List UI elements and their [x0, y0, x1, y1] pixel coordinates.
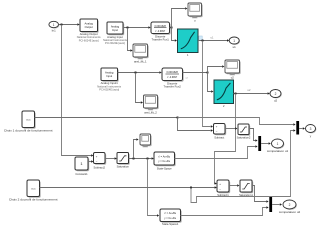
wire State-Space to Mux1 input 2 [175, 145, 258, 158]
block Saturation [117, 153, 130, 169]
wire Analog Input to Discrete Transfer Fcn1 [123, 26, 151, 28]
wire Subtract to Saturation2 [225, 127, 237, 129]
svg-text:−: − [216, 129, 218, 133]
junction on Analog Input1 wire [135, 72, 137, 74]
svg-text:y = Cx+Du: y = Cx+Du [158, 160, 170, 163]
wire Saturation to State-Space [129, 157, 154, 159]
saturation dynamic block 1 (teal) [178, 29, 199, 57]
mux Mux3 [296, 121, 299, 135]
wire Mux1 to outport comparaison u1 [261, 142, 271, 144]
svg-text:1: 1 [277, 142, 279, 146]
svg-text:Choix 1 du profil de fonctionn: Choix 1 du profil de fonctionnement [4, 128, 53, 132]
svg-text:2: 2 [275, 92, 277, 96]
wire Saturation1 to Mux2 input 1 [252, 186, 269, 203]
svg-text:Choix 2 du profil de fonctionn: Choix 2 du profil de fonctionnement [9, 197, 58, 201]
junction Transfer Fcn1 output [170, 27, 173, 29]
svg-text:z -0.9997: z -0.9997 [155, 30, 166, 33]
wire Saturation2 to Mux1 input 1 [249, 129, 258, 142]
junction on Choix1 wire [177, 117, 179, 119]
wire teal 2 to outport u2 [234, 88, 270, 95]
svg-text:Output: Output [85, 25, 93, 29]
wire Choix1 output [35, 117, 178, 119]
svg-text:x' = Ax+Bu: x' = Ax+Bu [164, 212, 176, 215]
wire In1 to Analog Output [59, 23, 80, 25]
wire down to saturation dynamic 2 [208, 73, 214, 93]
block Subtract1 [217, 180, 230, 197]
scope u [188, 3, 203, 22]
wire Transfer Fcn1 up to scope u [172, 7, 188, 27]
block State-Space [154, 152, 176, 171]
svg-text:z -0.9997: z -0.9997 [167, 76, 178, 79]
svg-text:Transfer Fcn1: Transfer Fcn1 [152, 38, 170, 42]
svg-text:u2: u2 [231, 75, 235, 79]
outport u2 [270, 90, 282, 103]
wire Transfer Fcn1 down to saturation dynamic 1 [172, 28, 178, 42]
svg-text:Subtract2: Subtract2 [93, 165, 105, 169]
svg-text:1: 1 [53, 23, 55, 27]
junction on Choix2 wire [190, 187, 192, 189]
wire Transfer Fcn2 output [183, 72, 208, 74]
svg-text:ansl_filt_2: ansl_filt_2 [144, 110, 157, 114]
svg-text:State-Space1: State-Space1 [162, 222, 179, 226]
block Analog Input1 [97, 68, 121, 92]
svg-text:Analog: Analog [105, 71, 114, 75]
wire Subtract1 to Saturation1 [229, 184, 239, 186]
svg-text:Out1: Out1 [31, 188, 37, 191]
wire Choix1 to Mux y input 1 [178, 118, 296, 126]
outport comparaison u2 [279, 200, 301, 214]
outport comparaison u1 [267, 139, 289, 153]
block State-Space1 [160, 209, 182, 226]
svg-text:Analog: Analog [85, 22, 94, 26]
junction to scope4 [133, 158, 135, 160]
svg-text:Transfer Fcn2: Transfer Fcn2 [164, 85, 182, 89]
outport y [306, 125, 317, 138]
block Analog Input [103, 22, 127, 45]
wire u2 feedback down to Subtract1 input 1 [215, 94, 236, 185]
junction on u1 wire [202, 40, 204, 42]
svg-text:comparaison u1: comparaison u1 [267, 149, 289, 153]
source Choix 1 du profil de fonctionnement [4, 111, 53, 132]
svg-text:ansl_filt_1: ansl_filt_1 [134, 59, 147, 63]
wire Mux3 to outport y [299, 127, 305, 129]
wire Constant1 to Subtract2 input 2 [88, 160, 93, 162]
svg-text:1: 1 [233, 39, 235, 43]
outport u1 [229, 37, 240, 49]
junction on Analog Input wire [127, 27, 129, 29]
svg-text:Input: Input [106, 74, 112, 78]
junction on u2 wire [235, 93, 237, 95]
wire Mux2 to outport comparaison u2 [272, 203, 282, 205]
svg-text:Saturation: Saturation [117, 164, 130, 168]
wire branch down to scope ansl_filt_2 [136, 73, 144, 104]
wire Choix2 loop to Mux3 input 2 [191, 129, 296, 202]
block Saturation1 [239, 180, 253, 197]
mux Mux1 [258, 136, 261, 151]
svg-text:Subtract: Subtract [214, 136, 224, 140]
block Analog Output [77, 19, 101, 42]
svg-text:0.0001628: 0.0001628 [155, 25, 167, 28]
svg-text:u1: u1 [233, 45, 237, 49]
svg-text:−: − [219, 188, 221, 192]
saturation dynamic block 2 (teal) [214, 80, 234, 108]
svg-text:PCI-6024E [auto]: PCI-6024E [auto] [79, 38, 99, 42]
block Subtract [214, 124, 227, 140]
svg-text:PCI-6024E [auto]: PCI-6024E [auto] [105, 41, 125, 45]
sample time tag on teal block 1 [199, 36, 202, 40]
scope4 [140, 134, 152, 147]
svg-text:Input: Input [112, 28, 118, 32]
junction to State-Space1 [147, 158, 149, 160]
wire Choix2 to Subtract1 input 2 [40, 186, 217, 188]
block Subtract2 [93, 153, 106, 170]
svg-text:2: 2 [289, 203, 291, 207]
svg-text:0.0001628: 0.0001628 [167, 71, 179, 74]
wire up to scope4 [134, 138, 139, 158]
scope ansl_filt_1 [133, 44, 149, 63]
junction Transfer Fcn2 output [207, 72, 209, 74]
svg-text:−: − [96, 160, 98, 164]
inport In1 [49, 21, 60, 32]
wire branch down to scope ansl_filt_1 [128, 28, 133, 52]
wire Choix1 branch to Subtract input 2 [178, 118, 214, 132]
scope u2 [225, 60, 241, 79]
wire In1 down to Subtract2 input 1 [62, 25, 94, 157]
source Choix 2 du profil de fonctionnement [9, 180, 58, 201]
constant Constant1 [75, 157, 89, 176]
wire u1 down to Subtract input 1 [203, 41, 214, 128]
mux Mux2 [269, 197, 272, 212]
svg-text:Out1: Out1 [26, 119, 32, 122]
svg-text:Saturation2: Saturation2 [237, 136, 251, 140]
junction on In1 wire [61, 24, 63, 26]
wire Subtract2 to Saturation [105, 157, 117, 159]
wire teal 1 to outport u1 [198, 35, 229, 41]
block Discrete Transfer Fcn1 [151, 22, 171, 42]
svg-text:comparaison u2: comparaison u2 [279, 210, 301, 214]
block Discrete Transfer Fcn2 [162, 68, 189, 89]
svg-text:y = Cx+Du: y = Cx+Du [164, 217, 176, 220]
wire up to scope u2 [208, 65, 225, 72]
wire State-Space1 to Mux2 input 2 [181, 206, 269, 215]
wire Analog Input1 to Discrete Transfer Fcn2 [118, 71, 162, 73]
block Saturation2 [237, 124, 251, 140]
scope ansl_filt_2 [144, 95, 159, 114]
svg-text:x' = Ax+Bu: x' = Ax+Bu [158, 155, 170, 158]
svg-text:In1: In1 [52, 29, 56, 33]
svg-text:Constant1: Constant1 [75, 172, 88, 176]
svg-text:u2: u2 [274, 99, 278, 103]
wire down to State-Space1 [148, 159, 160, 217]
svg-text:PCI-6024E [auto]: PCI-6024E [auto] [99, 88, 119, 92]
svg-text:State-Space: State-Space [157, 167, 172, 171]
svg-text:3: 3 [310, 127, 312, 131]
svg-text:Analog: Analog [111, 24, 120, 28]
